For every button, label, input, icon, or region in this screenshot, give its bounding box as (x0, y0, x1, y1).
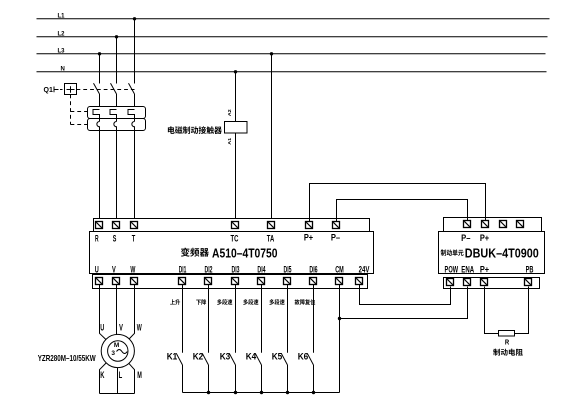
svg-text:POW: POW (445, 264, 459, 274)
wire L1 rail (37, 18, 550, 20)
label function DI1 上升 (170, 299, 180, 305)
label brake resistor CJK (493, 349, 523, 356)
wire CM drop to switch bus (339, 285, 341, 393)
svg-text:V: V (119, 322, 123, 332)
switch K1 blade (176, 353, 182, 365)
overload relay body (88, 119, 146, 131)
inverter U1 bottom terminal strip (93, 275, 368, 289)
breaker Q1 linkage dashed horizontal (77, 89, 135, 91)
terminal brake PB (525, 279, 532, 286)
svg-text:W: W (137, 322, 142, 332)
svg-text:DI1: DI1 (179, 264, 187, 274)
contactor linkage dashed stub lower (71, 124, 88, 126)
wire pole1 drop (99, 54, 101, 84)
node junction bus K3 (234, 391, 237, 394)
breaker Q1 cross (67, 86, 75, 93)
breaker Q1 label tie (54, 87, 59, 93)
terminal brake NC1 (500, 221, 507, 228)
breaker Q1 operator box (65, 84, 77, 95)
svg-text:T: T (132, 234, 136, 244)
svg-text:K: K (100, 370, 104, 380)
wire pole2 to inverter input (116, 131, 118, 222)
terminal DI2 (205, 278, 212, 285)
wire K6 to bus (313, 365, 315, 393)
svg-text:K2: K2 (193, 351, 204, 361)
wire DI3 drop (235, 285, 237, 353)
wire DI6 drop (313, 285, 315, 353)
terminal S (113, 222, 120, 229)
terminal brake P- (464, 221, 471, 228)
label function DI3 多段速 (217, 299, 232, 305)
wire pole2 drop (116, 37, 118, 84)
svg-text:DI2: DI2 (205, 264, 213, 274)
terminal TC (232, 222, 239, 229)
wire 24V to POW (360, 285, 451, 305)
node junction CM branch (338, 317, 341, 320)
breaker Q1 contact blade pole2 (111, 83, 117, 94)
breaker Q1 linkage dashed vertical (70, 95, 72, 125)
node junction pole3 on rail (133, 17, 136, 20)
wire DI5 drop (287, 285, 289, 353)
wire motor rotor M lead (129, 363, 135, 393)
wire K4 to bus (261, 365, 263, 393)
label brake unit CJK (441, 249, 464, 256)
svg-text:N: N (61, 67, 65, 73)
svg-text:R: R (505, 338, 510, 347)
svg-text:K1: K1 (167, 351, 178, 361)
terminal brake POW (447, 279, 454, 286)
wire pole3 to inverter input (134, 131, 136, 222)
svg-text:DI4: DI4 (257, 264, 266, 274)
node junction TA on L3 (270, 52, 273, 55)
wire motor rotor short bar (100, 393, 135, 395)
svg-text:K4: K4 (246, 351, 257, 361)
breaker Q1 contact blade pole3 (129, 83, 135, 94)
node junction bus K2 (207, 391, 210, 394)
svg-text:A1: A1 (227, 137, 233, 144)
switch K6 blade (307, 353, 313, 365)
node junction pole2 on rail (115, 35, 118, 38)
terminal CM (336, 278, 343, 285)
svg-text:K5: K5 (272, 351, 283, 361)
svg-text:P+: P+ (480, 264, 489, 274)
inverter U1 main body (90, 232, 374, 274)
svg-text:S: S (113, 234, 117, 244)
terminal brake NC2 (517, 221, 524, 228)
contactor KM contact pole3 (128, 110, 135, 122)
wire K2 to bus (208, 365, 210, 393)
terminal DI6 (310, 278, 317, 285)
terminal 24V (356, 278, 363, 285)
svg-text:U: U (100, 322, 104, 332)
svg-text:YZR280M–10/55KW: YZR280M–10/55KW (38, 353, 97, 363)
svg-text:PB: PB (526, 264, 534, 274)
contactor linkage dashed stub upper (71, 111, 88, 113)
svg-text:Q1: Q1 (44, 87, 53, 94)
wire pole3 drop (134, 19, 136, 84)
wire pole1 to contactor (99, 94, 101, 110)
wire pole2 to contactor (116, 94, 118, 110)
wire motor rotor K lead (100, 363, 107, 394)
coil KM electromagnetic brake contactor (225, 122, 248, 134)
wire K3 to bus (235, 365, 237, 393)
terminal P- (333, 222, 340, 229)
svg-text:K6: K6 (298, 351, 309, 361)
label function DI2 下降 (196, 299, 206, 305)
svg-text:ENA: ENA (461, 264, 474, 274)
terminal R (96, 222, 103, 229)
wire resistor R to PB (515, 287, 529, 334)
label inverter CJK (181, 248, 209, 257)
brake unit U2 bottom terminal strip (444, 278, 540, 289)
svg-text:TA: TA (267, 234, 275, 244)
contactor KM contact pole1 (93, 110, 100, 122)
overload relay element pole1 (97, 122, 100, 131)
terminal P+ (306, 222, 313, 229)
switch K5 blade (281, 353, 287, 365)
node junction bus K5 (286, 391, 289, 394)
svg-text:3: 3 (111, 350, 115, 357)
label function DI5 多段速 (269, 299, 284, 305)
breaker Q1 tie dash (60, 89, 63, 91)
svg-text:L2: L2 (58, 32, 66, 38)
wire motor rotor L lead (117, 368, 119, 394)
contactor KM contact pole2 (110, 110, 117, 122)
svg-text:A510–4T0750: A510–4T0750 (212, 245, 278, 260)
svg-text:A2: A2 (227, 109, 233, 116)
svg-text:M: M (137, 370, 142, 380)
terminal V (113, 278, 120, 285)
terminal TA (268, 222, 275, 229)
wire K5 to bus (287, 365, 289, 393)
svg-text:L: L (119, 370, 123, 380)
resistor R body (499, 331, 515, 337)
label function DI6 故障复位 (295, 299, 315, 305)
motor M1 outer circle (101, 334, 134, 367)
node junction bus K4 (260, 391, 263, 394)
terminal brake ENA (464, 279, 471, 286)
wire L3 to TA (271, 54, 273, 222)
wire U to motor (100, 285, 106, 340)
terminal W (131, 278, 138, 285)
terminal DI4 (258, 278, 265, 285)
svg-text:L3: L3 (58, 49, 66, 55)
wire DI1 drop (182, 285, 184, 353)
wire W to motor (129, 285, 134, 339)
svg-text:U: U (95, 264, 99, 274)
wire inverter P- to brake P- (337, 200, 468, 222)
wire DI2 drop (208, 285, 210, 353)
node junction pole1 on rail (98, 52, 101, 55)
svg-text:P+: P+ (480, 233, 489, 243)
terminal DI1 (179, 278, 186, 285)
svg-text:P–: P– (461, 233, 470, 243)
wire N rail (37, 71, 547, 73)
svg-text:M: M (114, 342, 119, 349)
wire K1 to bus (182, 365, 184, 393)
node junction coil on N (234, 70, 237, 73)
label electromagnetic brake contactor (168, 126, 222, 134)
svg-text:P+: P+ (304, 232, 313, 242)
svg-text:DBUK–4T0900: DBUK–4T0900 (465, 245, 539, 260)
overload relay element pole3 (132, 122, 135, 131)
wire N to coil A2 (235, 72, 237, 122)
wire pole1 to inverter input (99, 131, 101, 222)
label function DI4 多段速 (243, 299, 258, 305)
wire DI4 drop (261, 285, 263, 353)
motor M1 inner circle (108, 341, 128, 361)
contactor KM main contacts body (88, 107, 146, 119)
svg-text:W: W (130, 264, 135, 274)
wire L2 rail (37, 36, 548, 38)
wire coil A1 to TC (235, 133, 237, 222)
svg-text:P–: P– (331, 232, 340, 242)
wire CM to ENA (340, 287, 468, 319)
wire switch common bus (183, 392, 340, 394)
svg-text:K3: K3 (220, 351, 231, 361)
breaker Q1 contact blade pole1 (94, 83, 100, 94)
wire L3 rail (37, 53, 546, 55)
svg-text:R: R (95, 234, 99, 244)
terminal brake P+ (481, 279, 488, 286)
terminal U (96, 278, 103, 285)
svg-text:24V: 24V (359, 264, 370, 274)
brake unit U2 main body (439, 232, 545, 274)
switch K3 blade (229, 353, 235, 365)
svg-text:DI3: DI3 (232, 264, 240, 274)
wire V to motor (116, 285, 118, 335)
node junction bus K6 (312, 391, 315, 394)
wire brake P+ to resistor R (485, 287, 499, 334)
svg-text:TC: TC (231, 234, 239, 244)
terminal brake P+ (482, 221, 489, 228)
terminal DI5 (284, 278, 291, 285)
wire inverter P+ to brake P+ (310, 184, 486, 222)
terminal DI3 (232, 278, 239, 285)
motor M1 sine wave (117, 350, 128, 354)
svg-text:L1: L1 (58, 14, 66, 20)
svg-text:DI5: DI5 (284, 264, 292, 274)
brake unit U2 top terminal strip (444, 218, 542, 232)
svg-text:DI6: DI6 (309, 264, 317, 274)
inverter U1 top terminal strip (94, 219, 370, 232)
switch K2 blade (202, 353, 208, 365)
wire pole3 to contactor (134, 94, 136, 110)
terminal T (131, 222, 138, 229)
svg-text:V: V (112, 264, 116, 274)
overload relay element pole2 (114, 122, 117, 131)
switch K4 blade (255, 353, 261, 365)
svg-text:CM: CM (335, 264, 344, 274)
